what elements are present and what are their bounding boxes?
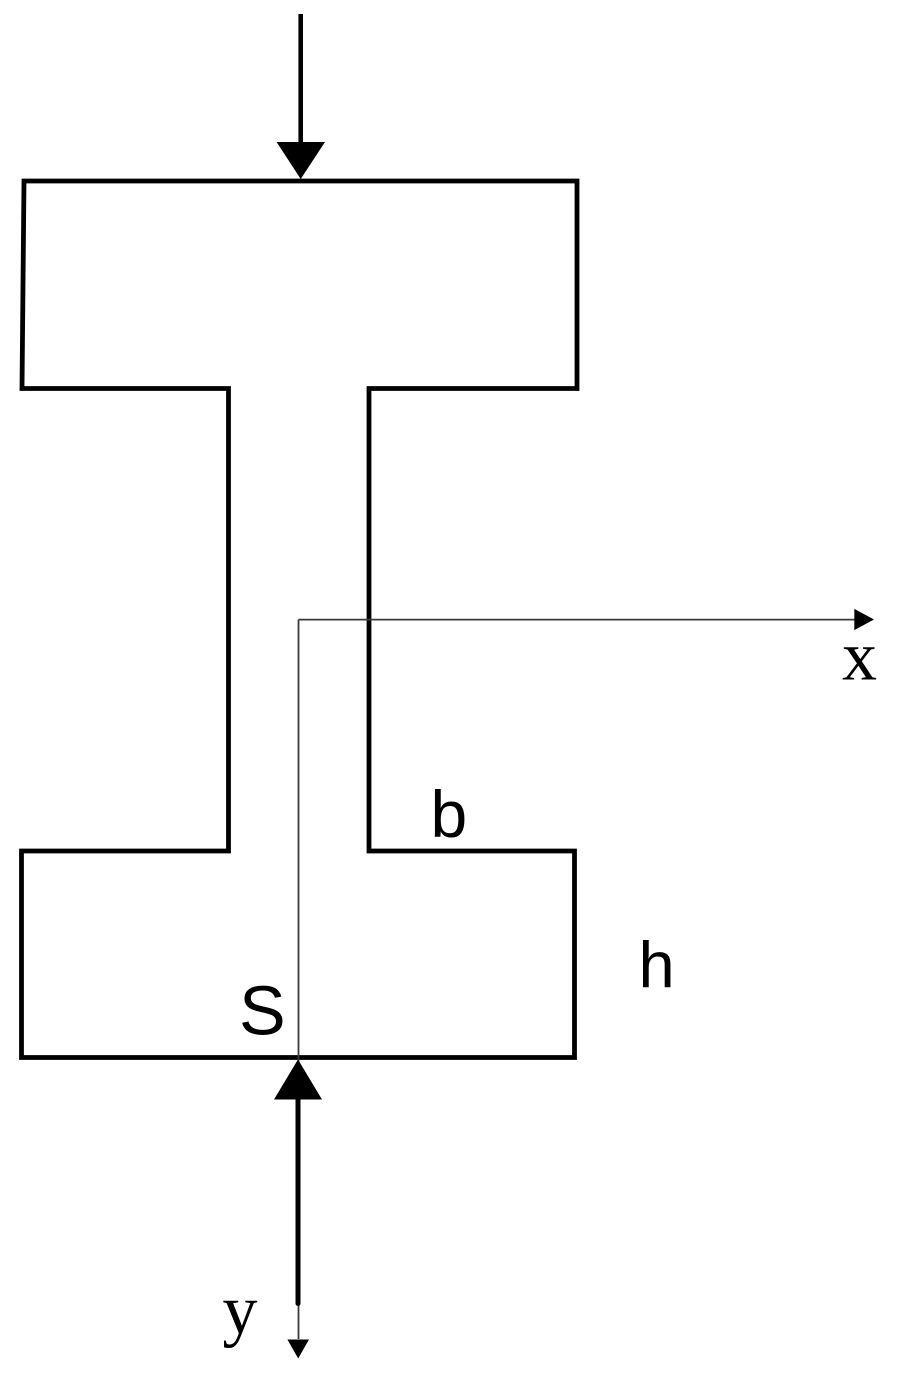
svg-text:b: b xyxy=(431,777,468,851)
bottom reaction arrow shaft xyxy=(296,1097,301,1304)
bottom reaction arrow head xyxy=(274,1060,322,1100)
top force arrow head xyxy=(277,142,325,179)
svg-text:S: S xyxy=(239,972,286,1050)
svg-text:x: x xyxy=(842,619,877,696)
x-axis line xyxy=(299,619,857,621)
x-axis arrowhead xyxy=(854,609,874,630)
svg-text:y: y xyxy=(223,1272,258,1349)
svg-text:h: h xyxy=(639,928,675,1001)
y-axis arrowhead xyxy=(287,1340,309,1359)
I-beam outline xyxy=(22,181,578,1058)
top force arrow shaft xyxy=(298,14,303,145)
y-axis line xyxy=(298,620,300,1339)
